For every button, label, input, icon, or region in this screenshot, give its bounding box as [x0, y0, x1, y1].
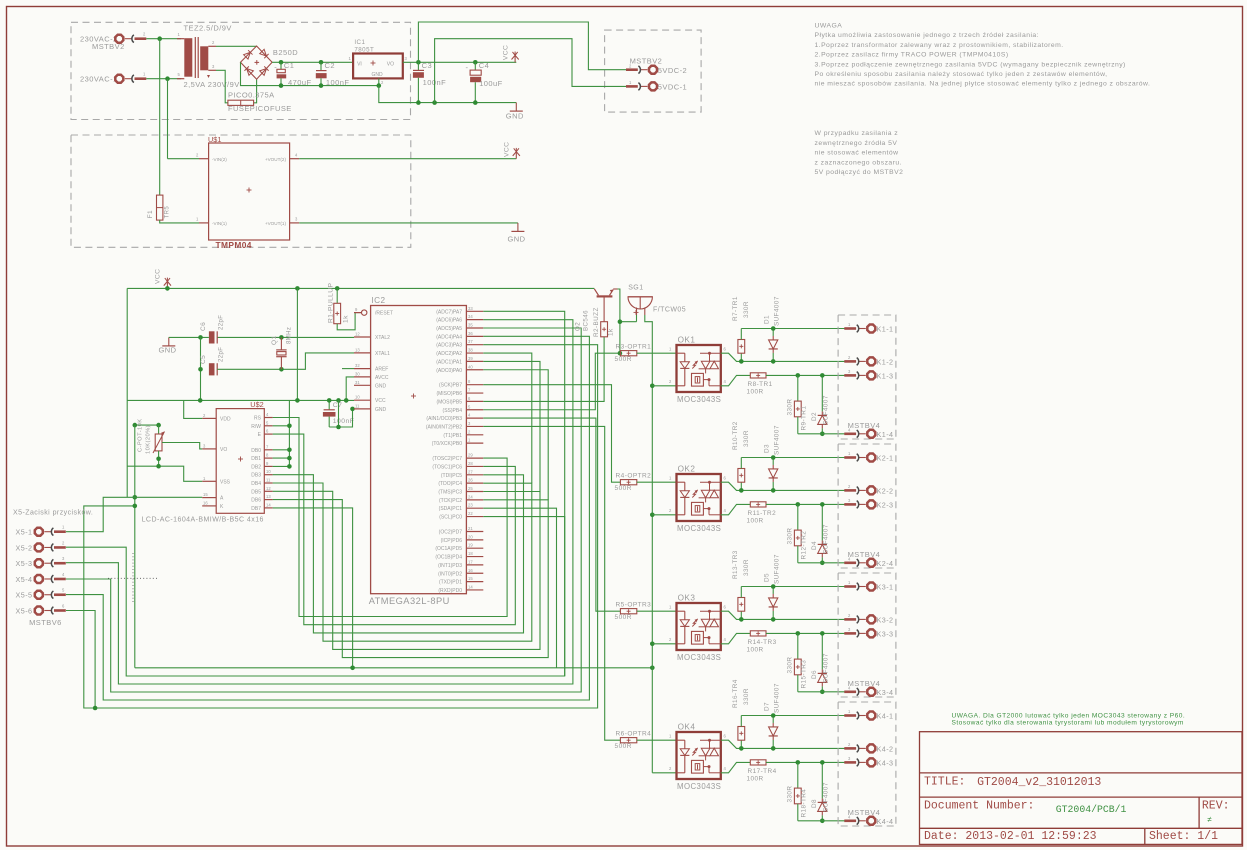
- wire XTAL1 net: [217, 368, 281, 370]
- svg-text:≠: ≠: [1207, 815, 1212, 824]
- junction vcc line / gnd branch: [336, 398, 341, 403]
- svg-text:SUF4007: SUF4007: [774, 296, 781, 326]
- connector pin K3-1: [867, 583, 875, 591]
- svg-text:(ADC7)PA7: (ADC7)PA7: [436, 309, 462, 315]
- dashed area box - TRACO power module option: [71, 135, 411, 247]
- wire R6 to OK4 LED anode: [637, 739, 677, 741]
- svg-text:36: 36: [468, 331, 473, 336]
- svg-text:+VOUT(1): +VOUT(1): [265, 221, 287, 226]
- wire x134.8 vertical: [134, 425, 136, 668]
- svg-text:RS: RS: [254, 416, 262, 422]
- diode D5 SUF4007: [769, 598, 778, 607]
- fuse F2 PICO0.375A: [228, 100, 254, 105]
- wire X5-1 to LCD A: [66, 497, 202, 531]
- svg-text:19: 19: [468, 543, 473, 548]
- junction crystal bottom: [279, 367, 284, 372]
- junction C7 bottom: [336, 425, 341, 430]
- svg-text:(T0/XCK)PB0: (T0/XCK)PB0: [432, 441, 463, 447]
- svg-text:D1: D1: [764, 315, 771, 324]
- potentiometer R-POT 10K: [135, 424, 159, 426]
- svg-text:14: 14: [266, 502, 271, 507]
- wire OK4 triac gate to R17: [721, 762, 751, 772]
- svg-text:(SS)PB4: (SS)PB4: [443, 408, 463, 414]
- resistor R17-TR4 100R (horizontal): [750, 760, 766, 765]
- svg-text:UWAGA: UWAGA: [815, 23, 843, 30]
- junction VCC symbol: [165, 286, 170, 291]
- junction vcc line / vcc feed: [295, 398, 300, 403]
- svg-text:(OC1A)PD5: (OC1A)PD5: [435, 546, 462, 552]
- wire OK1 triac gate to R8: [721, 375, 751, 385]
- svg-text:10K(20%): 10K(20%): [146, 425, 152, 454]
- svg-text:OK4: OK4: [678, 723, 696, 732]
- svg-text:32: 32: [355, 363, 360, 368]
- wire bus PC6 to LCD E: [273, 434, 516, 625]
- svg-text:12: 12: [266, 486, 271, 491]
- diode D8 SUF4007: [818, 802, 827, 811]
- wire U$1 +VOUT2 to VCC: [299, 158, 516, 160]
- wire pot wiper to LCD VO: [162, 443, 202, 449]
- svg-text:X5-2: X5-2: [16, 543, 33, 552]
- svg-text:OK2: OK2: [678, 465, 696, 474]
- svg-text:10: 10: [266, 469, 271, 474]
- diode D2 SUF4007: [818, 415, 827, 424]
- svg-text:27: 27: [468, 469, 473, 474]
- wire R4 to OK2 LED anode: [637, 481, 677, 483]
- transistor Q2 BC546: [597, 295, 613, 297]
- svg-text:330R: 330R: [743, 559, 750, 576]
- svg-text:D4: D4: [811, 541, 818, 550]
- wire LCD DB1 to gnd branch: [273, 457, 290, 459]
- svg-text:K1-1: K1-1: [877, 325, 894, 334]
- svg-text:VDD: VDD: [220, 416, 231, 422]
- svg-text:(INT0)PD2: (INT0)PD2: [438, 571, 462, 577]
- svg-text:(ADC6)PA6: (ADC6)PA6: [436, 318, 462, 324]
- connector X 5VDC-2: [649, 66, 657, 74]
- svg-text:K2-3: K2-3: [877, 500, 894, 509]
- ground symbol GND (U$1): [517, 223, 519, 232]
- svg-text:(AIN0/INT2)PB2: (AIN0/INT2)PB2: [426, 424, 462, 430]
- svg-text:IC1: IC1: [354, 39, 365, 46]
- svg-text:D2: D2: [811, 412, 818, 421]
- svg-text:UWAGA. Dla GT2000 lutować tylk: UWAGA. Dla GT2000 lutować tylko jeden MO…: [952, 713, 1186, 720]
- svg-text:100R: 100R: [747, 775, 764, 782]
- svg-text:PICO0.375A: PICO0.375A: [228, 91, 275, 100]
- svg-text:11: 11: [355, 403, 360, 408]
- wire LCD VSS to pot/gnd: [127, 466, 202, 481]
- junction VCC rail / R1 pullup: [335, 286, 340, 291]
- wire Q2 emitter to SG1: [618, 289, 637, 322]
- diode D7 SUF4007: [769, 727, 778, 736]
- wire cathode bus to OK2 LED cathode: [652, 514, 676, 516]
- svg-text:-VIN(1): -VIN(1): [212, 221, 227, 226]
- svg-text:Płytka umożliwia zastosowanie: Płytka umożliwia zastosowanie jednego z …: [815, 32, 1040, 39]
- connector pin K4-2: [867, 744, 875, 752]
- svg-text:(SCK)PB7: (SCK)PB7: [439, 383, 462, 389]
- junction D5 bottom: [771, 617, 776, 622]
- connector K3 dashed box: [838, 573, 896, 697]
- svg-text:X5-4: X5-4: [16, 575, 33, 584]
- junction C1: [279, 60, 284, 65]
- svg-text:VI: VI: [357, 62, 362, 68]
- dashed area box - transformer power supply option: [71, 22, 411, 119]
- cursor crosshair mark: [108, 553, 158, 603]
- connector pin K2-3: [867, 500, 875, 508]
- wire 230VAC-1 to transformer primary: [146, 78, 181, 80]
- svg-text:230VAC-1: 230VAC-1: [80, 75, 118, 84]
- wire PA0 to fan: [483, 370, 548, 500]
- wire SG1 right pin to cathode bus: [645, 315, 653, 773]
- svg-text:R13-TR3: R13-TR3: [732, 550, 739, 579]
- svg-text:TITLE:: TITLE:: [924, 776, 965, 789]
- svg-text:TR5: TR5: [165, 206, 171, 219]
- wire IC2 VCC pin line: [127, 399, 354, 401]
- svg-text:nie mieszać sposobów zasilania: nie mieszać sposobów zasilania. Na jedne…: [815, 81, 1151, 88]
- svg-text:(SDA)PC1: (SDA)PC1: [439, 506, 463, 512]
- svg-text:330R: 330R: [743, 430, 750, 447]
- resistor R1-PULLUP 1k: [336, 288, 338, 303]
- svg-text:TMPM04: TMPM04: [216, 240, 252, 250]
- svg-text:(MISO)PB6: (MISO)PB6: [436, 391, 462, 397]
- svg-text:K1-3: K1-3: [877, 371, 894, 380]
- wire PB7 to R4-OPTR2: [483, 385, 620, 483]
- svg-text:MOC3043S: MOC3043S: [677, 395, 721, 404]
- svg-text:R6-OPTR4: R6-OPTR4: [616, 730, 652, 737]
- resistor R5-OPTR3 500R: [620, 609, 636, 614]
- resistor R2-BUZZ 1k: [601, 322, 608, 337]
- junction gnd rail c3: [416, 100, 421, 105]
- wire LCD VDD to VCC line: [184, 400, 203, 418]
- wire PB4 to R3-OPTR1: [483, 353, 620, 410]
- wire bridge minus to ground rail: [241, 62, 379, 85]
- svg-text:16: 16: [468, 568, 473, 573]
- junction XTAL1 / C5: [198, 367, 203, 372]
- svg-text:MOC3043S: MOC3043S: [677, 524, 721, 533]
- svg-text:DB4: DB4: [251, 481, 261, 487]
- svg-text:SUF4007: SUF4007: [774, 683, 781, 713]
- svg-text:(MOSI)PB5: (MOSI)PB5: [436, 399, 462, 405]
- svg-text:MSTBV4: MSTBV4: [848, 679, 881, 688]
- svg-text:/RESET: /RESET: [375, 311, 393, 317]
- power symbol VCC (main rail): [166, 281, 168, 288]
- svg-text:FUSEPICOFUSE: FUSEPICOFUSE: [228, 104, 292, 113]
- svg-text:VCC: VCC: [503, 45, 510, 60]
- wire PB5 to R2-BUZZ: [483, 337, 604, 402]
- wire X5-6 branch: [66, 611, 95, 709]
- IC2 left pins: [354, 312, 362, 314]
- connector pin K4-3: [867, 758, 875, 766]
- transformer secondary winding: [200, 46, 208, 70]
- svg-text:DB1: DB1: [251, 456, 261, 462]
- wire gnd vertical C5/C6: [200, 337, 202, 400]
- resistor R10-TR2 330R (vertical): [740, 482, 742, 490]
- svg-text:R3-OPTR1: R3-OPTR1: [616, 343, 652, 350]
- junction h6 / OK cathode bus: [650, 666, 655, 671]
- svg-text:C2: C2: [325, 61, 336, 70]
- svg-text:K4-4: K4-4: [877, 817, 894, 826]
- wire VCC feed down to IC2 VCC pin line: [296, 288, 298, 400]
- connector pin K1-2: [867, 357, 875, 365]
- wire bus PC3 to LCD DB5: [273, 491, 540, 649]
- svg-text:K1-2: K1-2: [877, 357, 894, 366]
- svg-text:GT2004_v2_31012013: GT2004_v2_31012013: [977, 776, 1101, 789]
- resistor R7-TR1 330R (vertical): [740, 353, 742, 361]
- junction D4 bottom: [820, 561, 825, 566]
- wire OK1 triac main1 to K1 row2: [721, 353, 853, 361]
- connector pin K2-2: [867, 486, 875, 494]
- svg-text:K3-3: K3-3: [877, 629, 894, 638]
- svg-text:22pF: 22pF: [219, 347, 225, 362]
- wire R1 to IC2 /RESET: [337, 313, 361, 330]
- wire bus PC2 to LCD DB6: [273, 500, 549, 658]
- wire emitter node down to R3 net: [619, 322, 621, 354]
- svg-text:1k: 1k: [343, 315, 350, 323]
- junction R/W: [287, 424, 292, 429]
- svg-text:R18-TR4: R18-TR4: [801, 789, 808, 818]
- svg-text:K4-2: K4-2: [877, 744, 894, 753]
- svg-text:R/W: R/W: [251, 424, 261, 430]
- svg-text:Q1: Q1: [271, 336, 278, 345]
- junction DB2: [287, 464, 292, 469]
- svg-text:MSTBV4: MSTBV4: [848, 421, 881, 430]
- wire R5 to OK3 LED anode: [637, 610, 677, 612]
- junction vcc line / C5C6 gnd: [198, 398, 203, 403]
- svg-text:X5-3: X5-3: [16, 559, 33, 568]
- wire OK2 triac gate to R11: [721, 504, 751, 514]
- svg-text:Document Number:: Document Number:: [924, 799, 1034, 812]
- svg-text:REV:: REV:: [1202, 799, 1230, 812]
- wire LCD DB7 down: [273, 508, 353, 668]
- connector pin K4-1: [867, 712, 875, 720]
- wire 230VAC-1 junction to U$1 VIN: [168, 158, 200, 160]
- crystal Q1 8MHz: [280, 337, 282, 350]
- resistor R6-OPTR4 500R: [620, 738, 636, 743]
- svg-text:(TOSC1)PC6: (TOSC1)PC6: [432, 464, 462, 470]
- svg-text:C-POT-10K: C-POT-10K: [138, 418, 144, 452]
- wire K4-1 line: [741, 715, 852, 717]
- svg-text:OK3: OK3: [678, 594, 696, 603]
- wire bus PC4 to LCD DB4: [273, 483, 532, 641]
- resistor R8-TR1 100R (horizontal): [750, 373, 766, 378]
- junction ground rail at C2: [319, 83, 324, 88]
- wire K3-4 line: [798, 691, 853, 693]
- junction cathode bus OK2: [650, 513, 655, 518]
- svg-text:(TCK)PC2: (TCK)PC2: [439, 498, 462, 504]
- svg-text:35: 35: [468, 323, 473, 328]
- wire bus PA7 to X5-2: [66, 311, 565, 676]
- junction D2 bottom: [820, 432, 825, 437]
- svg-text:100R: 100R: [747, 388, 764, 395]
- svg-text:SUF4007: SUF4007: [823, 653, 830, 683]
- connector K4 dashed box: [838, 702, 896, 826]
- svg-text:(OC2)PD7: (OC2)PD7: [439, 530, 463, 536]
- svg-text:100R: 100R: [747, 517, 764, 524]
- svg-text:U$2: U$2: [250, 400, 263, 409]
- svg-text:26: 26: [468, 478, 473, 483]
- junction crystal top: [279, 335, 284, 340]
- svg-text:OK1: OK1: [678, 336, 696, 345]
- svg-text:R8-TR1: R8-TR1: [748, 381, 773, 388]
- svg-text:C6: C6: [200, 322, 207, 331]
- junction C2: [319, 60, 324, 65]
- svg-text:100R: 100R: [747, 646, 764, 653]
- connector pin K3-3: [867, 629, 875, 637]
- svg-text:330R: 330R: [743, 301, 750, 318]
- dashed area box - external 5VDC supply option: [605, 30, 702, 112]
- wire R3 to OK1 LED anode: [637, 352, 677, 354]
- svg-text:F1: F1: [147, 210, 154, 218]
- wire fuse to bridge AC2: [254, 79, 257, 103]
- svg-text:(OC1B)PD4: (OC1B)PD4: [435, 555, 462, 561]
- wire LCD DB0 to gnd branch: [273, 449, 290, 451]
- svg-text:MOC3043S: MOC3043S: [677, 653, 721, 662]
- svg-text:DB3: DB3: [251, 473, 261, 479]
- svg-text:K2-4: K2-4: [877, 559, 894, 568]
- svg-text:Sheet: 1/1: Sheet: 1/1: [1149, 830, 1218, 843]
- junction emitter node: [618, 319, 623, 324]
- wire gnd right branch x289: [273, 400, 290, 466]
- capacitor C5 22pF: [209, 363, 215, 375]
- svg-text:X5-Zaciski przycisków.: X5-Zaciski przycisków.: [13, 510, 93, 517]
- svg-text:12: 12: [355, 332, 360, 337]
- connector pin K2-4: [867, 559, 875, 567]
- wire cathode bus to OK3 LED cathode: [652, 643, 676, 645]
- svg-text:(ADC0)PA0: (ADC0)PA0: [436, 368, 462, 374]
- svg-text:SUF4007: SUF4007: [823, 524, 830, 554]
- capacitor C2 100nF: [320, 62, 322, 70]
- svg-text:28: 28: [468, 461, 473, 466]
- svg-text:VCC: VCC: [504, 142, 511, 157]
- junction D2 top: [820, 373, 825, 378]
- svg-text:(ADC4)PA4: (ADC4)PA4: [436, 334, 462, 340]
- junction GND pin branch: [350, 407, 355, 412]
- wire bus PA3 to X5-6 / LCD K line: [84, 345, 598, 708]
- junction D6 top: [820, 631, 825, 636]
- junction D1 top: [771, 326, 776, 331]
- power module U$1 TMPM04: [209, 143, 290, 240]
- junction R13 bottom: [739, 617, 744, 622]
- svg-text:DB7: DB7: [251, 506, 261, 512]
- svg-text:(TOSC2)PC7: (TOSC2)PC7: [432, 456, 462, 462]
- wire down to fuse F1: [159, 39, 161, 195]
- svg-text:21: 21: [468, 526, 473, 531]
- diode D1 SUF4007: [769, 340, 778, 349]
- LCD module U$2: [216, 409, 264, 514]
- svg-text:R7-TR1: R7-TR1: [732, 296, 739, 321]
- svg-text:13: 13: [355, 347, 360, 352]
- optocoupler OK1 MOC3043S: [677, 345, 721, 392]
- svg-text:10: 10: [355, 395, 360, 400]
- svg-text:K4-3: K4-3: [877, 758, 894, 767]
- junction VCC rail at C4: [473, 60, 478, 65]
- svg-text:DB6: DB6: [251, 498, 261, 504]
- junction D3 top: [771, 455, 776, 460]
- diode D4 SUF4007: [818, 544, 827, 553]
- junction LCD A: [133, 495, 138, 500]
- wire gnd branch down to C7 bottom line: [338, 400, 340, 427]
- ground symbol GND (top): [515, 103, 517, 112]
- resistor R13-TR3 330R (vertical): [740, 611, 742, 619]
- junction X5-6 / b5: [93, 706, 98, 711]
- svg-text:100nF: 100nF: [333, 418, 355, 425]
- svg-text:100uF: 100uF: [479, 79, 503, 88]
- LCD left pins: [202, 417, 216, 419]
- svg-text:22: 22: [468, 511, 473, 516]
- connector pin K4-4: [867, 817, 875, 825]
- buzzer SG1 F/TCW05: [628, 296, 652, 298]
- svg-text:GT2004/PCB/1: GT2004/PCB/1: [1056, 804, 1127, 815]
- svg-text:DB5: DB5: [251, 489, 261, 495]
- svg-text:R5-OPTR3: R5-OPTR3: [616, 601, 652, 608]
- svg-text:30: 30: [355, 371, 360, 376]
- resistor R14-TR3 100R (horizontal): [750, 631, 766, 636]
- svg-text:MSTBV2: MSTBV2: [92, 42, 125, 51]
- svg-text:330R: 330R: [787, 399, 794, 416]
- resistor R12-TR2 330R (vertical): [797, 504, 799, 530]
- wire K4-4 line: [798, 820, 853, 822]
- svg-text:D3: D3: [764, 444, 771, 453]
- wire OK3 triac gate to R14: [721, 633, 751, 643]
- wire PA2 to fan: [483, 353, 532, 483]
- svg-text:X5-5: X5-5: [16, 591, 33, 600]
- junction ground rail at C1: [279, 83, 284, 88]
- svg-text:330R: 330R: [787, 657, 794, 674]
- wire bus PA6 to X5-3: [66, 320, 573, 684]
- optocoupler OK3 MOC3043S: [677, 603, 721, 650]
- wire 230VAC-2 to transformer primary: [146, 38, 181, 40]
- svg-text:K1-4: K1-4: [877, 430, 894, 439]
- wire K1-1 line: [741, 328, 852, 330]
- svg-text:5VDC-1: 5VDC-1: [658, 83, 687, 92]
- svg-text:D5: D5: [764, 573, 771, 582]
- voltage regulator IC1 7805T: [353, 54, 403, 79]
- svg-text:nie stosować elementów: nie stosować elementów: [815, 150, 899, 157]
- power symbol VCC (U$1): [515, 152, 517, 159]
- microcontroller IC2 ATMEGA32L-8PU: [371, 306, 467, 594]
- svg-text:17: 17: [468, 559, 473, 564]
- wire XTAL2 net: [169, 336, 209, 338]
- wire U$1 +VOUT1 to GND: [299, 222, 518, 224]
- wire GND to 5VDC-1: [435, 39, 630, 103]
- svg-text:+VOUT(2): +VOUT(2): [265, 157, 287, 162]
- svg-text:(TMS)PC3: (TMS)PC3: [438, 490, 462, 496]
- wire ground rail to lower-right: [379, 86, 517, 103]
- svg-text:330R: 330R: [787, 786, 794, 803]
- junction D4 top: [820, 502, 825, 507]
- svg-text:2.Poprzez zasilacz firmy TRACO: 2.Poprzez zasilacz firmy TRACO POWER (TM…: [815, 52, 1009, 59]
- optocoupler OK4 MOC3043S: [677, 732, 721, 779]
- wire PB2 to R6-OPTR4: [483, 426, 620, 740]
- svg-text:500R: 500R: [615, 743, 632, 750]
- svg-text:R15-TR3: R15-TR3: [801, 660, 808, 689]
- svg-text:ATMEGA32L-8PU: ATMEGA32L-8PU: [369, 596, 450, 606]
- junction cathode bus OK1: [650, 384, 655, 389]
- svg-text:MSTBV6: MSTBV6: [29, 618, 62, 627]
- svg-text:GND: GND: [375, 407, 387, 413]
- svg-text:TEZ2.5/D/9V: TEZ2.5/D/9V: [184, 23, 232, 32]
- svg-text:R17-TR4: R17-TR4: [748, 768, 777, 775]
- junction VCC rail / IC2 VCC feed: [295, 286, 300, 291]
- junction DB1: [287, 456, 292, 461]
- wire PB3 to R5-OPTR3: [483, 418, 620, 611]
- svg-text:K3-2: K3-2: [877, 615, 894, 624]
- svg-text:D7: D7: [764, 702, 771, 711]
- connector pin K1-1: [867, 325, 875, 333]
- svg-text:8MHz: 8MHz: [287, 327, 293, 344]
- svg-text:R11-TR2: R11-TR2: [748, 510, 777, 517]
- svg-text:DB0: DB0: [251, 448, 261, 454]
- svg-text:37: 37: [468, 339, 473, 344]
- svg-text:24: 24: [468, 494, 473, 499]
